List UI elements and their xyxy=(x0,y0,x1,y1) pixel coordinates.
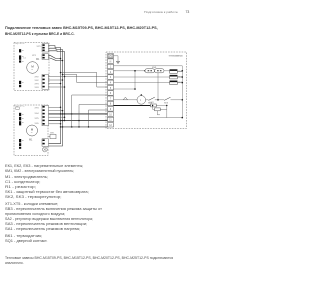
branch row c (straight) xyxy=(49,76,108,78)
feed wire L1 xyxy=(49,46,61,144)
sensor link wire xyxy=(49,136,51,138)
motor M1 in box 2 xyxy=(27,125,38,136)
thermostat SK3 switch xyxy=(164,97,170,100)
ground symbol xyxy=(116,61,120,63)
row2 wire to EK2 xyxy=(114,76,170,78)
terminal strip XT in curtain xyxy=(108,54,114,127)
row wire segments xyxy=(114,99,124,101)
svg-text:~: ~ xyxy=(31,131,33,135)
connector round lower right of box 2 xyxy=(42,139,49,152)
staircase row 110 xyxy=(89,109,108,111)
circuit schematic xyxy=(0,0,200,170)
svg-text:XS5: XS5 xyxy=(35,123,40,125)
svg-text:ЩУ BHC: ЩУ BHC xyxy=(15,43,24,45)
control box 1 (ЩУ) dashed enclosure xyxy=(14,43,49,91)
svg-text:C1: C1 xyxy=(23,58,27,60)
bold row 1 xyxy=(49,113,108,115)
mid drop from capsules junction xyxy=(134,71,136,89)
bottom row xyxy=(61,126,108,128)
svg-text:SK3: SK3 xyxy=(164,103,169,105)
page number 73 xyxy=(186,10,190,14)
heater feed row xyxy=(114,66,183,118)
sensor circle SK1 xyxy=(137,96,146,105)
feed wire L3 xyxy=(49,51,65,121)
sensor BK1 box xyxy=(50,134,56,138)
pin strip ticks box 2 xyxy=(22,114,24,141)
riser C xyxy=(88,110,90,127)
relay wiring xyxy=(149,106,182,118)
junction dots circuit1 xyxy=(60,58,66,88)
thermostat SK2 switch xyxy=(149,97,155,100)
staircase row 104.5 xyxy=(79,104,108,106)
title line 1 xyxy=(5,26,158,30)
svg-text:XP1: XP1 xyxy=(32,55,37,57)
flexible cable curve 1 xyxy=(49,55,61,58)
connector labels box2 xyxy=(35,108,40,126)
wires: circuit1 upper bundle turning down (3-phase feed) xyxy=(49,46,65,146)
terminal cell glyphs xyxy=(108,54,112,57)
svg-text:KM1: KM1 xyxy=(152,67,157,69)
pin strip tick labels box 1 xyxy=(22,50,24,83)
connector stack right of box 2 xyxy=(42,105,49,125)
row1 wire xyxy=(114,70,146,72)
contactor capsule KM2 xyxy=(155,69,165,73)
connector stubs c2 xyxy=(49,106,61,108)
svg-text:XS3: XS3 xyxy=(35,87,40,89)
bold row 2 xyxy=(49,120,108,122)
control box 2 (ЩУ) dashed enclosure xyxy=(14,105,48,156)
heater element EK1 xyxy=(170,70,183,74)
riser A xyxy=(71,95,73,127)
connector stubs xyxy=(49,79,63,81)
connector stack upper right of box 1 xyxy=(42,44,49,60)
relay KM1 coil box xyxy=(151,104,157,107)
pin strip (plug) in box 1 xyxy=(19,49,21,87)
junction dots heater rows xyxy=(134,70,183,118)
junction dots circuit2 xyxy=(60,107,90,128)
svg-text:~: ~ xyxy=(31,68,33,72)
contactor capsule KM1 xyxy=(145,69,155,73)
row3 wire to EK3 xyxy=(114,82,170,84)
staircase row 98 xyxy=(72,94,108,96)
feed wire L2 xyxy=(49,48,63,146)
link capsule2 to EK1 xyxy=(164,70,170,72)
bottom paragraph xyxy=(5,256,173,260)
svg-text:XP1: XP1 xyxy=(37,46,42,48)
heat curtain unit dashed enclosure xyxy=(106,52,187,129)
flexible cable curve 2 xyxy=(49,58,63,61)
heater element EK3 xyxy=(170,81,183,85)
svg-text:XS2: XS2 xyxy=(35,80,40,82)
svg-text:XP3: XP3 xyxy=(35,84,40,86)
title line 2 xyxy=(5,32,75,36)
pin strip (plug) in box 2 xyxy=(19,113,21,149)
control box 2 label xyxy=(15,104,25,107)
heater element EK2 xyxy=(170,75,183,79)
svg-text:XP4: XP4 xyxy=(35,108,40,110)
thermal cutout triangle xyxy=(123,97,127,100)
motor M1 in box 1 xyxy=(27,62,39,74)
svg-text:XS4: XS4 xyxy=(35,113,40,115)
control box 1 label xyxy=(15,41,25,44)
branch row b xyxy=(63,75,108,83)
right collector vertical xyxy=(181,66,183,118)
capsule inner marks xyxy=(148,70,162,71)
relay block bold feed xyxy=(114,105,151,107)
svg-text:M1: M1 xyxy=(29,138,33,141)
earth drop from top terminal xyxy=(114,56,119,62)
thermostat row xyxy=(114,99,183,101)
circuit1 branch wires to curtain terminals xyxy=(49,73,108,88)
legend lines xyxy=(5,164,83,168)
svg-text:M1: M1 xyxy=(36,58,40,61)
branch row a xyxy=(61,73,108,88)
riser B xyxy=(78,105,80,127)
svg-text:теплозавеса: теплозавеса xyxy=(169,54,184,57)
page header xyxy=(144,10,178,14)
connector stack lower right of box 1 xyxy=(42,74,49,89)
small aux symbols box2 top xyxy=(16,107,19,109)
connector labels box1 lower xyxy=(35,76,40,89)
svg-text:XP5: XP5 xyxy=(35,118,40,120)
svg-text:XP2: XP2 xyxy=(35,76,40,78)
EK right drops xyxy=(177,70,182,72)
wires: circuit2 bold rows xyxy=(49,114,108,121)
relay KM2 coil box xyxy=(155,108,161,111)
circuit2 thin rows and risers xyxy=(49,95,108,127)
